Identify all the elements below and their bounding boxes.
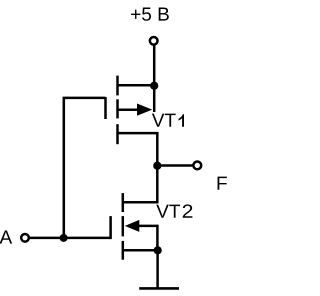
transistor VT2 substrate lead with arrow (n-channel)	[125, 220, 140, 232]
junction dot output node F	[153, 162, 161, 170]
transistor VT1 substrate lead with arrow (p-channel)	[118, 108, 139, 111]
transistor VT1 source lead	[118, 84, 155, 87]
net F label "F"	[218, 177, 227, 190]
transistor VT2 source lead	[123, 249, 158, 252]
junction dot VT2 source and substrate	[154, 246, 162, 254]
junction dot VT1 source node	[150, 82, 158, 90]
wire output node to terminal F	[157, 164, 193, 167]
ground	[139, 287, 179, 290]
wire VT2 source down to ground	[156, 250, 159, 288]
net A label "A"	[0, 231, 12, 244]
transistor VT1 drain lead, wire down to output node	[118, 133, 158, 166]
transistor VT1 channel segment (source)	[116, 76, 119, 96]
transistor VT2 channel segment (source)	[122, 241, 125, 260]
transistor VT1 gate electrode	[104, 97, 107, 119]
wire output node down to VT2 drain	[123, 166, 158, 203]
transistor VT2 channel segment (drain)	[122, 193, 125, 212]
wire +5V rail down to VT1 substrate arrow	[153, 45, 156, 112]
wire input A to VT2 gate	[29, 237, 110, 240]
terminal F	[193, 162, 201, 170]
terminal +5V	[150, 37, 158, 45]
net +5V label "+5 В"	[131, 8, 169, 21]
transistor VT1 channel segment (drain)	[116, 124, 119, 144]
wire input A feedback up to VT1 gate	[64, 98, 106, 238]
terminal A	[21, 234, 29, 242]
transistor VT2 gate electrode	[109, 216, 112, 239]
transistor VT1 label "VT1"	[152, 114, 184, 127]
transistor VT2 label "VT2"	[156, 204, 192, 217]
junction dot input node A	[60, 234, 68, 242]
transistor VT1 channel segment (middle)	[116, 99, 119, 118]
transistor VT2 channel segment (middle)	[122, 216, 125, 236]
